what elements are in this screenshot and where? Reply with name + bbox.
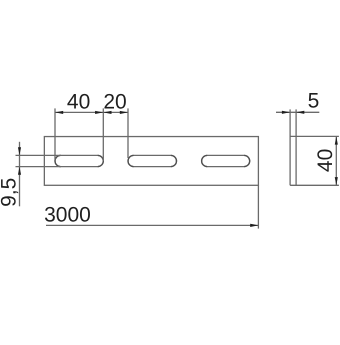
arrow dim5 left	[282, 111, 290, 114]
arrow dim5 right	[296, 111, 304, 114]
arrow dim20 left	[103, 111, 111, 114]
extension line dim40 left	[54, 108, 56, 161]
extension line 3000 right (part right edge extended)	[257, 185, 259, 228]
arrow dim9,5 top	[18, 147, 21, 155]
svg-text:40: 40	[67, 90, 90, 113]
arrow dim40 right	[95, 111, 103, 114]
dimension line 9,5 vertical	[19, 142, 21, 207]
svg-text:20: 20	[103, 90, 126, 113]
front view: part outline	[44, 137, 258, 186]
extension line 9,5 bottom	[16, 166, 62, 168]
slot cap arcs (darker)	[55, 155, 250, 166]
svg-text:3000: 3000	[44, 203, 91, 226]
dimension line 40 side	[335, 136, 337, 185]
side view top edge + ext line dim40	[290, 135, 339, 137]
side view bottom edge + ext line dim40	[290, 184, 339, 186]
arrow dim40side top	[335, 136, 338, 144]
arrow dim9,5 bottom	[18, 167, 21, 175]
extension line dim40/dim20 shared	[102, 108, 104, 161]
dimension line 3000	[46, 224, 258, 226]
side view left edge + ext line dim5	[289, 109, 291, 185]
slot 2	[128, 155, 177, 166]
arrow dim3000 right	[250, 224, 258, 227]
extension line dim20 right	[127, 108, 129, 158]
dimension line 40/20 top	[55, 111, 128, 113]
arrow dim20 right	[120, 111, 128, 114]
arrow dim40side bottom	[335, 177, 338, 185]
extension line 9,5 top	[16, 154, 62, 156]
svg-text:40: 40	[314, 149, 337, 172]
side view right edge + ext line dim5	[295, 109, 297, 185]
svg-text:5: 5	[308, 89, 320, 112]
dimension line 5	[276, 111, 319, 113]
arrow dim40 left	[55, 111, 63, 114]
slot 3	[202, 155, 250, 166]
slot 1	[55, 155, 103, 166]
svg-text:9,5: 9,5	[0, 178, 21, 207]
